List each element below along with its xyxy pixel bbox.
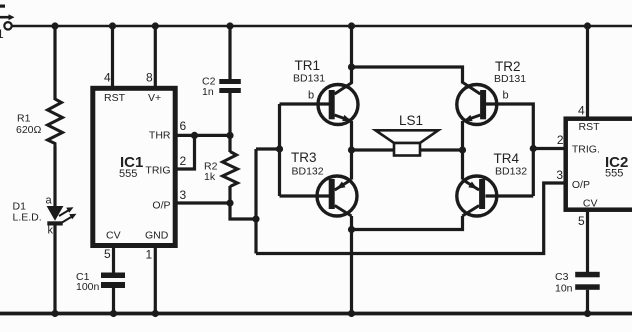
node: THR/TRIG tie junction	[191, 132, 198, 139]
node: drive-bus junction	[252, 215, 259, 222]
svg-text:8: 8	[146, 71, 153, 85]
wire: rail to R1	[53, 26, 56, 100]
wire: TR3 collector to 0V rail	[350, 216, 353, 314]
svg-text:BD132: BD132	[495, 166, 527, 178]
wire: TR2 base lead to base vertical	[486, 104, 534, 196]
node: top rail / IC1 pin8 junction	[152, 22, 159, 29]
svg-text:TRIG.: TRIG.	[572, 143, 600, 155]
node: collector tie junction	[348, 63, 355, 70]
svg-text:GND: GND	[145, 230, 169, 242]
svg-text:555: 555	[119, 168, 137, 180]
wire: rail to C2	[228, 26, 231, 79]
wire: TR1 collector to +V rail	[350, 26, 353, 84]
wire: TR2 emitter down to LS1 node	[461, 121, 464, 150]
node: base line tap junction	[276, 145, 283, 152]
wire: IC1 pin1 to 0V rail	[154, 246, 157, 314]
transistor TR3 (BD132 PNP)	[291, 150, 357, 216]
wire: IC1 THR to R2/C2 node	[176, 134, 230, 137]
svg-text:CV: CV	[583, 197, 598, 209]
svg-text:V+: V+	[148, 92, 161, 104]
svg-text:RST: RST	[104, 92, 126, 104]
wire: rail to IC2 pin 4	[586, 26, 589, 118]
transistor TR2 (BD131 NPN, mirrored)	[457, 59, 526, 125]
wire: IC2 pin5 to C3	[586, 210, 589, 273]
svg-text:TR1: TR1	[295, 58, 321, 73]
svg-text:3: 3	[556, 168, 563, 182]
svg-text:620Ω: 620Ω	[16, 124, 42, 136]
capacitor C2 1n	[202, 76, 241, 99]
node: O/P / R2 bottom junction	[226, 199, 233, 206]
svg-text:1k: 1k	[204, 171, 216, 183]
loudspeaker LS1	[348, 113, 466, 156]
svg-text:CV: CV	[106, 230, 121, 242]
IC1 555 timer	[93, 88, 175, 245]
svg-text:2: 2	[557, 133, 564, 147]
wire: C3 to 0V rail	[586, 290, 589, 314]
node: bottom rail / D1 junction	[51, 310, 58, 317]
wire: +V top rail	[12, 25, 632, 28]
transistor TR4 (BD132 PNP, mirrored)	[457, 151, 527, 216]
svg-text:TRIG: TRIG	[145, 165, 170, 177]
wire: THR node down to TRIG	[176, 135, 195, 169]
wire: rail to IC1 pin 4	[111, 26, 114, 87]
IC2 555 timer	[566, 119, 632, 210]
svg-text:L.E.D.: L.E.D.	[13, 212, 42, 224]
wire: tap to TR1/TR3 bases	[256, 147, 280, 150]
svg-text:555: 555	[605, 168, 623, 180]
svg-text:4: 4	[104, 71, 111, 85]
svg-text:O/P: O/P	[572, 179, 590, 191]
wire: IC1 O/P to R2 bottom	[176, 201, 230, 204]
LED D1	[13, 195, 77, 237]
wire: collector tie TR1-TR2	[352, 67, 463, 84]
wire: D1 to 0V rail	[53, 226, 56, 314]
svg-text:5: 5	[578, 214, 585, 228]
wire: C2 to THR node	[228, 93, 231, 135]
svg-text:BD131: BD131	[494, 73, 526, 85]
wire: TR4 emitter up to LS1 node	[461, 150, 464, 180]
wire: long bottom bus to IC2 O/P	[256, 183, 566, 254]
terminal B1 (battery feed, cut off at left edge)	[0, 5, 15, 42]
resistor R2 1k	[204, 135, 238, 203]
transistor TR1 (BD131 NPN)	[293, 58, 358, 125]
wire: TR4 collector to TR3 collector	[352, 216, 463, 230]
node: TRIG tap junction (IC2)	[530, 145, 537, 152]
svg-text:BD131: BD131	[293, 73, 325, 85]
svg-text:k: k	[48, 225, 54, 237]
wire: IC1 pin5 to C1	[112, 246, 115, 273]
node: bottom rail / TR3 collector junction	[348, 310, 355, 317]
wire: TR1 base lead	[280, 102, 331, 105]
wire: TR3 base lead	[280, 194, 331, 197]
wire: TR3 emitter up to LS1 node	[350, 150, 353, 180]
svg-text:C3: C3	[555, 271, 569, 283]
node: bottom rail / C1 junction	[110, 310, 117, 317]
svg-text:BD132: BD132	[292, 166, 324, 178]
node: top rail / R1 junction	[51, 22, 58, 29]
svg-text:O/P: O/P	[152, 200, 170, 212]
svg-text:2: 2	[180, 154, 187, 168]
node: top rail / TR1 collector junction	[348, 22, 355, 29]
svg-text:5: 5	[104, 247, 111, 261]
svg-text:RST: RST	[579, 121, 601, 133]
svg-text:4: 4	[578, 104, 585, 118]
svg-text:a: a	[46, 195, 53, 207]
wire: base vertical to IC2 TRIG	[533, 147, 565, 150]
capacitor C3 10n	[555, 271, 600, 295]
node: TR3/TR4 collector junction	[348, 226, 355, 233]
svg-text:b: b	[503, 90, 509, 102]
node: bottom rail / C3 junction	[584, 310, 591, 317]
wire: R1 to D1	[53, 147, 56, 207]
node: top rail / IC1 pin4 junction	[109, 22, 116, 29]
node: top rail / IC2 pin4 junction	[584, 22, 591, 29]
svg-text:6: 6	[180, 119, 187, 133]
svg-text:TR2: TR2	[495, 59, 521, 74]
svg-text:LS1: LS1	[399, 113, 423, 128]
svg-text:3: 3	[180, 188, 187, 202]
svg-text:R1: R1	[17, 113, 31, 125]
node: bottom rail / IC1 pin1 junction	[152, 310, 159, 317]
wire: drive bus vertical	[254, 149, 257, 254]
svg-text:1: 1	[146, 248, 153, 262]
wire: TR1 emitter down to LS1 node	[350, 121, 353, 150]
resistor R1	[16, 99, 63, 147]
svg-text:TR4: TR4	[494, 151, 520, 166]
svg-text:100n: 100n	[76, 281, 100, 293]
wire: TR4 base lead	[486, 194, 534, 197]
capacitor C1 100n	[76, 271, 125, 293]
svg-text:THR: THR	[149, 130, 171, 142]
node: top rail / C2 junction	[226, 22, 233, 29]
wire: TR1/TR3 base vertical	[278, 104, 281, 196]
svg-text:1: 1	[0, 27, 4, 41]
wire: C1 to 0V rail	[112, 288, 115, 314]
svg-text:10n: 10n	[555, 283, 573, 295]
wire: 0V bottom rail	[0, 312, 632, 316]
svg-text:1n: 1n	[202, 86, 214, 98]
wire: rail to IC1 pin 8	[154, 26, 157, 87]
node: C2/R2/THR junction	[226, 132, 233, 139]
wire: R2 bottom step down to drive node	[230, 203, 256, 219]
svg-text:TR3: TR3	[291, 150, 317, 165]
svg-text:b: b	[308, 89, 314, 101]
